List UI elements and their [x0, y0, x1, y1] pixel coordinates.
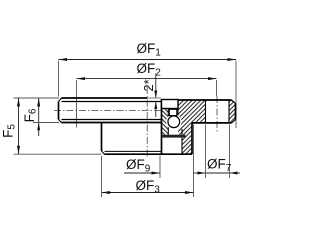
race edge lines [167, 109, 169, 135]
ext line F1 left [58, 61, 60, 97]
boss bottom chamfer line [105, 150, 162, 152]
outer ring rim hatched [229, 100, 236, 123]
dim line F7 [206, 172, 230, 174]
dim line F3 [102, 192, 194, 194]
seal bar (dark) [162, 135, 186, 138]
cage square [169, 109, 177, 115]
outer ring flange hatched [178, 100, 206, 123]
ball [168, 116, 180, 128]
boss bottom face [105, 153, 193, 155]
plate bottom chamfer line [62, 119, 162, 121]
2* lower arrow [155, 102, 157, 117]
outer ring lip hatched [182, 123, 192, 154]
arrow F2 left [77, 77, 86, 80]
plate horizontal centerline [54, 110, 163, 112]
ext line F9 [159, 156, 161, 179]
cap block (bearing top cover) [162, 100, 179, 109]
flange top face [178, 99, 232, 101]
boss right face [161, 100, 163, 155]
ext line F1 right [235, 61, 237, 129]
flange bottom face [192, 122, 232, 124]
arrow F1 left [59, 58, 68, 61]
rim right edge [235, 104, 237, 120]
bolt hole right edge [228, 100, 230, 123]
ext line F3 left [101, 156, 103, 197]
axis centerline [146, 87, 148, 158]
ball groove (white relief) [166, 114, 181, 129]
lip inner face [181, 129, 183, 135]
svg-text:2*: 2* [141, 79, 156, 91]
bolt hole left edge [205, 100, 207, 123]
2* top extension [147, 97, 161, 99]
dim line F5 [18, 98, 20, 154]
F6 bottom ext line [33, 122, 59, 124]
dim line F1 [59, 59, 237, 61]
F6 lower arrow (outside) [38, 123, 40, 136]
dim line F9 [124, 172, 160, 174]
plate bottom face [62, 122, 162, 124]
rim chamfer bottom [232, 120, 236, 123]
outer ring inner shoulder hatched [178, 123, 182, 135]
F7 right arrow (outside) [230, 172, 241, 174]
dim line F6 [38, 98, 40, 123]
top ext line [14, 97, 60, 99]
bolt hole centerline [216, 96, 218, 134]
bottom ext line [14, 153, 102, 155]
inner race hatched band [162, 109, 168, 135]
arrow F2 right [208, 77, 217, 80]
ext line F7 right [229, 125, 231, 179]
ext line F2 left [76, 80, 78, 128]
arrow F1 right [228, 58, 237, 61]
rim chamfer top [232, 100, 236, 104]
boss left edge [101, 123, 103, 152]
ext line F2 right (upper) [216, 80, 218, 96]
plate chamfer bottom-left [59, 120, 62, 123]
ext line F7 left [205, 125, 207, 179]
F7 left arrow (outside) [194, 172, 206, 174]
lip outer face [191, 123, 193, 154]
plate chamfer top-left [59, 98, 62, 102]
ext line F3 right [193, 125, 195, 198]
2* upper arrow line [155, 74, 157, 98]
plate left edge [58, 102, 60, 120]
dim line F2 [77, 78, 217, 80]
plate top face [62, 97, 148, 99]
plate top chamfer line [62, 101, 162, 103]
boss chamfer bottom-left [102, 151, 105, 154]
